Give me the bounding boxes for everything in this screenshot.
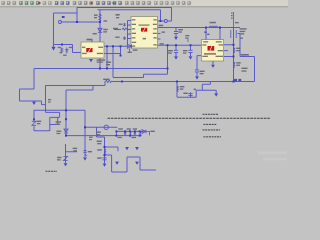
pin marks U3 top: [204, 31, 209, 35]
opto U4: [96, 125, 108, 135]
ground C6: [103, 164, 107, 167]
wire divider: [233, 28, 235, 82]
ground fb: [194, 89, 219, 97]
diode D3: [56, 121, 69, 134]
wire U2 out: [104, 45, 131, 47]
net label left: [48, 99, 51, 103]
wire IC1 left pins: [114, 21, 131, 45]
wire jog: [202, 82, 210, 91]
wire node gate: [34, 109, 86, 111]
wire: [104, 82, 106, 86]
resistor R6: [97, 141, 106, 154]
wire IC1 right stubs: [158, 21, 165, 45]
resistor R1: [94, 14, 101, 21]
watermark text bottom right: [258, 152, 287, 161]
capacitor C2: [168, 50, 178, 60]
wire zener branch: [33, 110, 35, 131]
capacitor C4 U3: [195, 70, 205, 80]
wire input source: [54, 44, 73, 46]
capacitor C6: [97, 157, 106, 159]
wire VOUT rail: [164, 44, 202, 46]
wire: [105, 147, 119, 151]
wire: [65, 90, 67, 136]
canvas background: [0, 0, 288, 175]
wire: [66, 86, 93, 91]
wire cap branch: [175, 28, 177, 37]
capacitor C1: [174, 29, 183, 40]
ground Q1: [83, 157, 87, 160]
diode D4: [142, 130, 155, 136]
wire U3 left low pin: [197, 56, 201, 77]
IC1 left passives: [122, 23, 127, 40]
wire opto rail: [85, 126, 117, 128]
wire aux: [66, 144, 78, 163]
capacitor C3: [183, 50, 193, 60]
wire: [206, 28, 220, 40]
node label: [104, 20, 108, 21]
ground V1: [51, 45, 55, 51]
node U2 top pin: [87, 39, 93, 42]
toolbar icons: [1, 1, 191, 6]
out label: [241, 54, 249, 72]
comp row labels: [118, 128, 137, 138]
resistor label right: [89, 137, 93, 141]
net flags: [234, 79, 241, 81]
wire feedback: [46, 85, 106, 87]
wire: [113, 45, 168, 77]
diode D1: [93, 28, 108, 34]
resistor R3: [234, 48, 241, 54]
comp row parts: [116, 132, 140, 135]
wire cap branch: [190, 45, 192, 56]
wire: [76, 8, 78, 23]
wire: [73, 45, 82, 53]
capacitor C5: [183, 93, 192, 96]
wire ground bus: [34, 68, 168, 70]
wire: [20, 69, 46, 113]
ground flags row: [115, 147, 139, 165]
zener D2: [32, 121, 41, 126]
op-amp controller U2: [81, 42, 104, 58]
wire: [171, 8, 173, 19]
node: [160, 20, 162, 22]
diode D6: [127, 44, 137, 53]
wire U3 bottom: [212, 61, 214, 65]
wire: [98, 9, 161, 11]
pin circle node: [159, 19, 172, 33]
wire mid rail: [116, 130, 146, 132]
snubber parts: [185, 35, 189, 42]
wire node FB: [112, 81, 255, 83]
wire: [104, 46, 121, 55]
wire SW rail: [164, 27, 241, 29]
zener D5: [57, 157, 68, 167]
wire fb network: [177, 82, 216, 98]
wire: [160, 10, 162, 21]
ground bus flag: [32, 102, 36, 105]
resistor R2: [103, 79, 112, 83]
pin label: [160, 43, 164, 44]
transistor Q1: [73, 148, 92, 156]
wire: [54, 12, 78, 14]
wire: [99, 10, 101, 69]
wire node IN: [62, 21, 101, 23]
node label VCC: [106, 62, 111, 66]
wire: [105, 155, 157, 172]
transformer T1: [231, 12, 247, 38]
sim command text: [46, 170, 58, 172]
regulator U3: [201, 40, 223, 61]
wire: [97, 127, 105, 163]
wire: [238, 34, 255, 82]
inductor L1: [209, 22, 218, 28]
resistor R4: [234, 62, 241, 68]
wire lower-left steps: [34, 112, 60, 131]
wire U3 right pins: [224, 45, 234, 57]
wire top net VIN rail: [77, 7, 172, 9]
wire: [53, 13, 55, 45]
spice directive text block: [108, 114, 271, 137]
wire comp rail: [66, 135, 142, 137]
wire: [106, 46, 108, 68]
input sense parts: [58, 47, 73, 56]
resistor R5: [177, 86, 184, 92]
controller U1: [131, 17, 158, 49]
ground U3: [211, 65, 215, 68]
ground flag U2: [89, 59, 105, 63]
toolbar: [0, 0, 288, 7]
wire: [84, 110, 86, 157]
wire cap branch: [175, 45, 177, 56]
voltage source V1: [59, 16, 65, 24]
